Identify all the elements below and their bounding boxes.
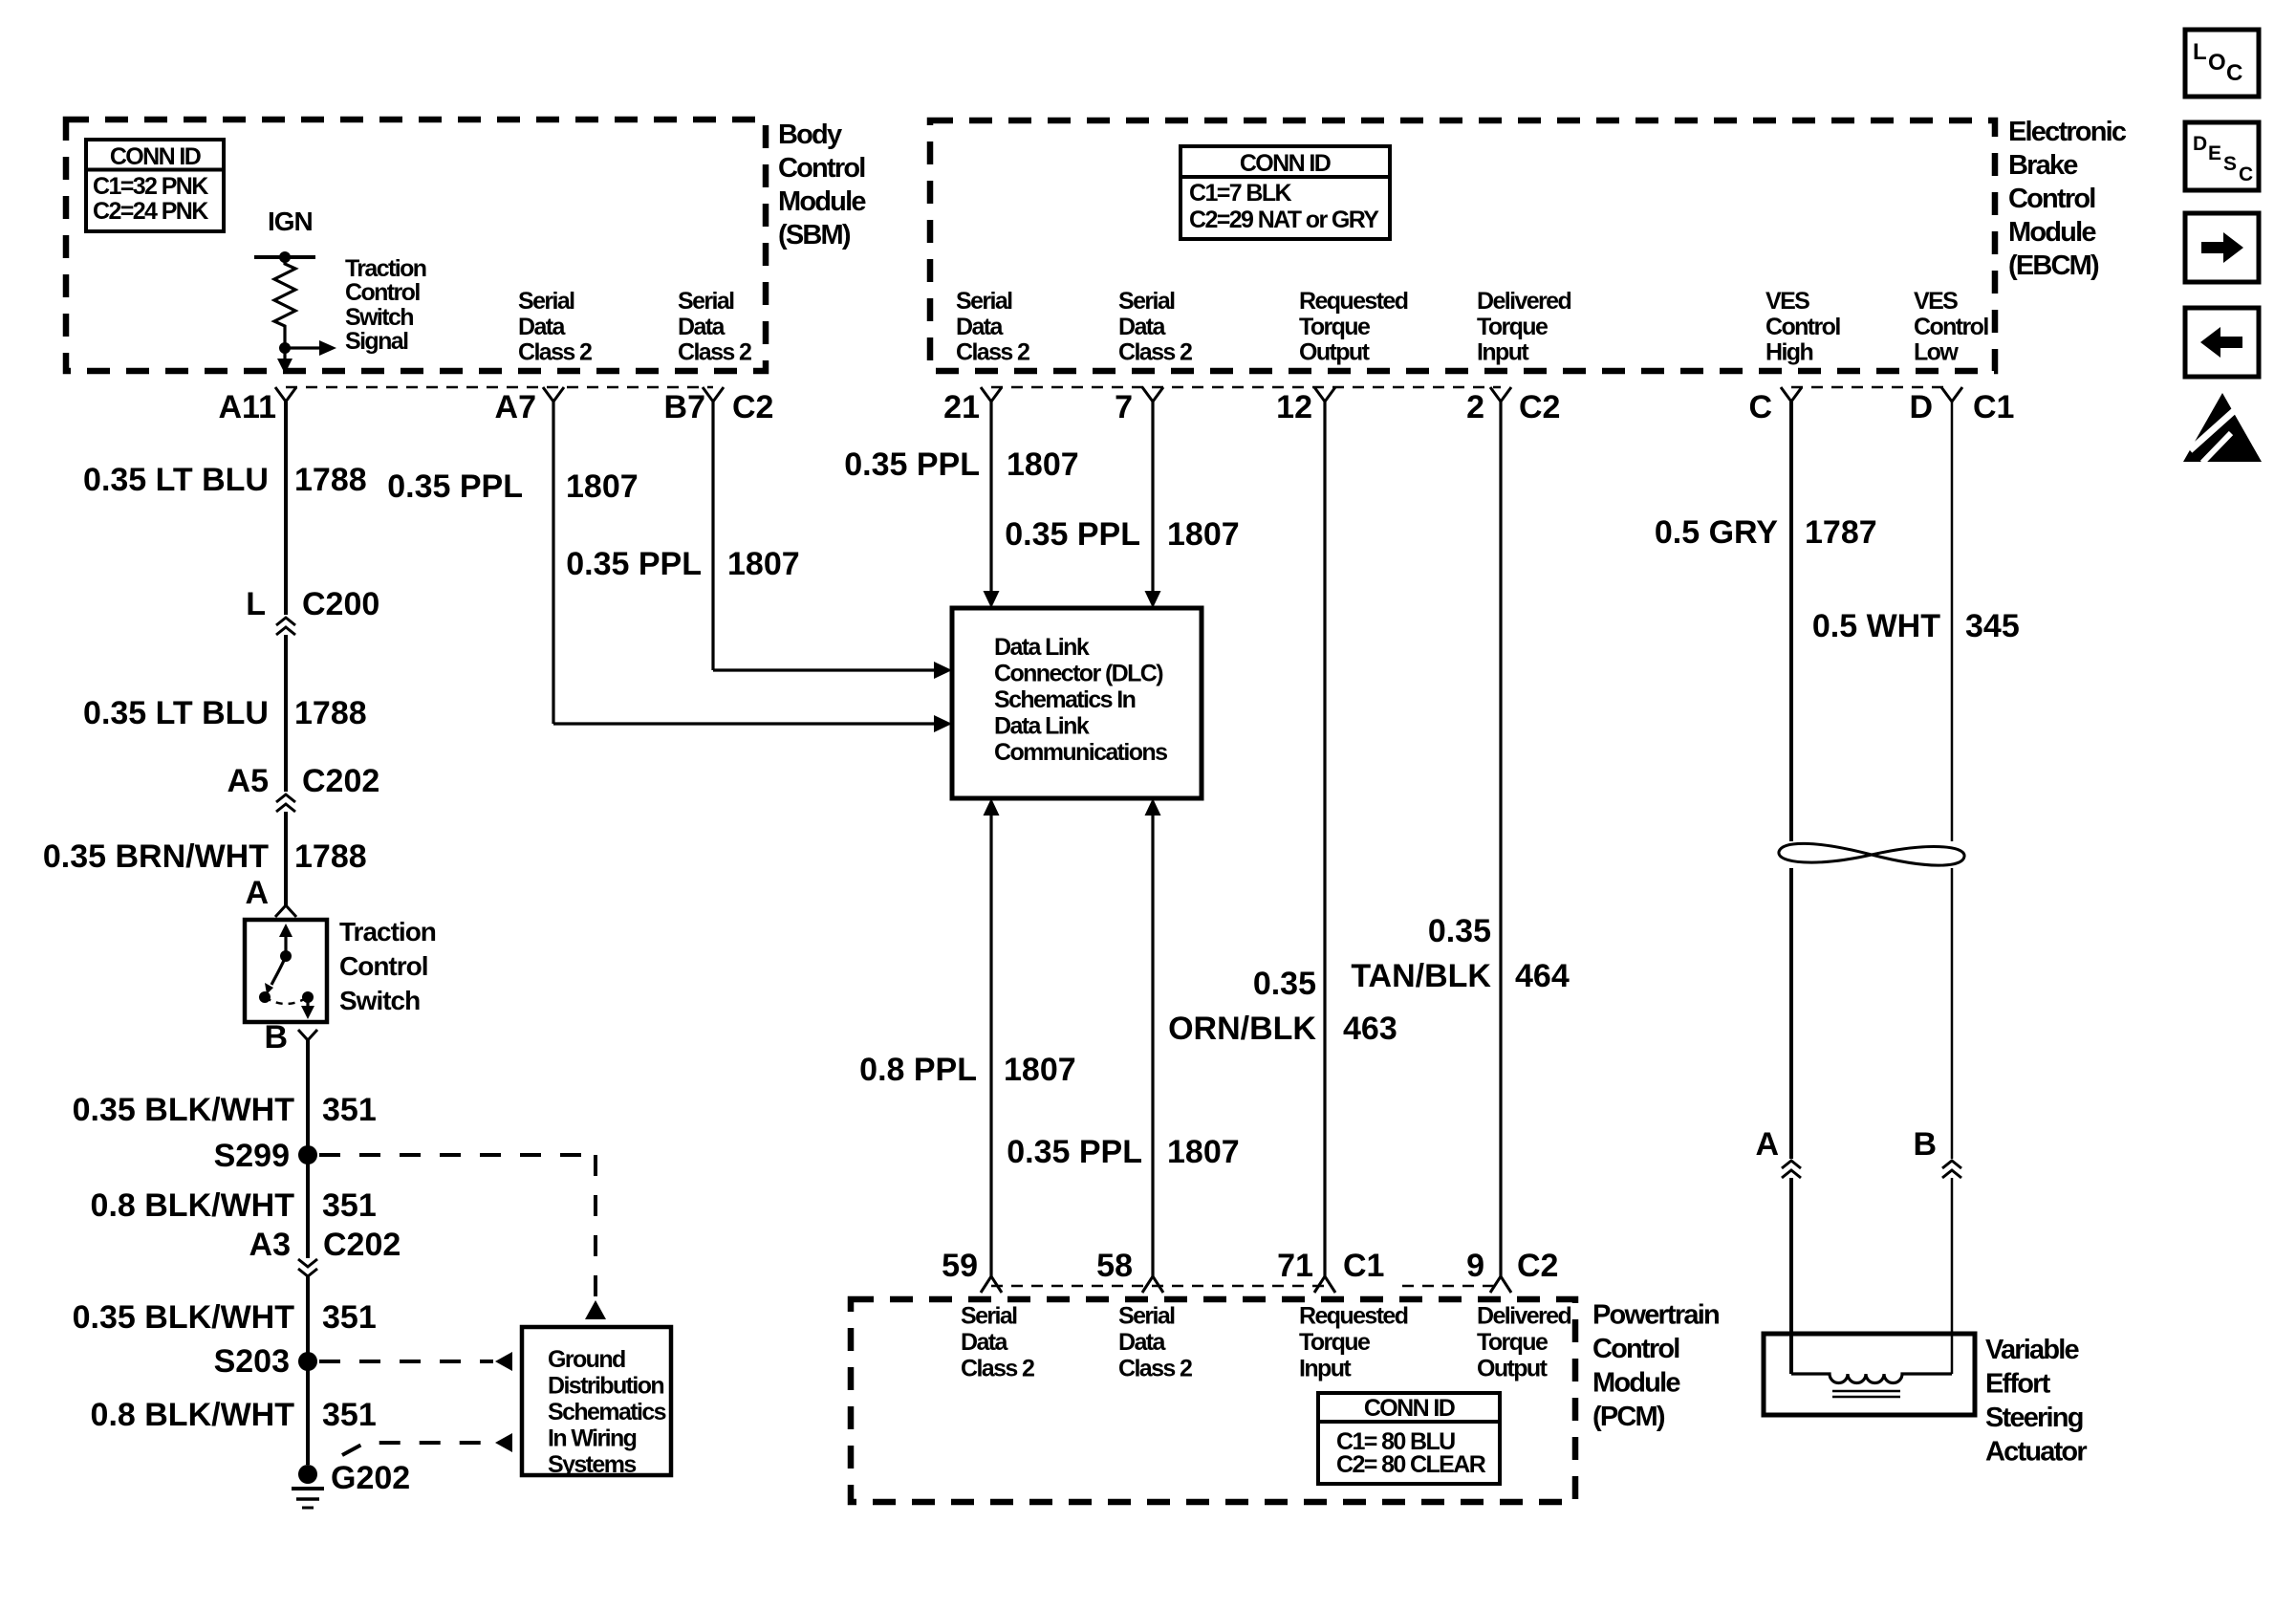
svg-text:1807: 1807 <box>1167 516 1240 553</box>
svg-text:Control: Control <box>1765 314 1840 340</box>
svg-text:0.8 BLK/WHT: 0.8 BLK/WHT <box>91 1397 295 1433</box>
svg-text:9: 9 <box>1466 1248 1484 1284</box>
svg-text:0.35 LT BLU: 0.35 LT BLU <box>83 695 269 731</box>
svg-text:C2: C2 <box>1517 1248 1558 1284</box>
svg-text:0.35 BLK/WHT: 0.35 BLK/WHT <box>73 1299 295 1336</box>
svg-text:C1=32 PNK: C1=32 PNK <box>93 173 208 200</box>
svg-text:1807: 1807 <box>1167 1134 1240 1170</box>
svg-text:Control: Control <box>778 153 865 184</box>
svg-text:21: 21 <box>943 389 980 425</box>
svg-text:Module: Module <box>778 186 866 217</box>
svg-text:Serial: Serial <box>518 288 574 315</box>
svg-text:Data Link: Data Link <box>994 713 1090 740</box>
svg-text:C1=7 BLK: C1=7 BLK <box>1189 180 1292 207</box>
svg-text:7: 7 <box>1115 389 1133 425</box>
svg-text:IGN: IGN <box>268 207 313 236</box>
svg-text:Traction: Traction <box>339 917 436 946</box>
svg-text:CONN ID: CONN ID <box>1364 1395 1455 1422</box>
svg-text:C2= 80 CLEAR: C2= 80 CLEAR <box>1336 1451 1486 1478</box>
svg-text:71: 71 <box>1277 1248 1313 1284</box>
svg-text:0.8 PPL: 0.8 PPL <box>859 1052 977 1088</box>
svg-text:VES: VES <box>1914 288 1958 315</box>
svg-text:Serial: Serial <box>956 288 1012 315</box>
svg-text:Communications: Communications <box>994 739 1167 766</box>
svg-text:Switch: Switch <box>339 986 420 1015</box>
svg-text:Switch: Switch <box>345 304 413 331</box>
svg-text:Connector (DLC): Connector (DLC) <box>994 661 1163 687</box>
svg-text:In Wiring: In Wiring <box>548 1425 637 1452</box>
svg-text:463: 463 <box>1343 1011 1397 1047</box>
svg-text:B7: B7 <box>664 389 705 425</box>
svg-text:1807: 1807 <box>1007 446 1079 483</box>
svg-text:D: D <box>2193 133 2207 155</box>
svg-text:Class 2: Class 2 <box>678 339 751 366</box>
svg-text:S203: S203 <box>214 1343 290 1380</box>
svg-text:2: 2 <box>1466 389 1484 425</box>
svg-text:Data: Data <box>678 314 726 340</box>
svg-text:0.35 PPL: 0.35 PPL <box>1007 1134 1142 1170</box>
svg-text:351: 351 <box>322 1299 377 1336</box>
svg-text:Body: Body <box>778 120 842 150</box>
svg-text:0.35 PPL: 0.35 PPL <box>387 468 523 505</box>
svg-text:Module: Module <box>2008 217 2096 248</box>
svg-text:0.35 BLK/WHT: 0.35 BLK/WHT <box>73 1092 295 1128</box>
svg-text:59: 59 <box>942 1248 978 1284</box>
svg-text:B: B <box>1913 1126 1937 1163</box>
svg-text:Output: Output <box>1477 1356 1549 1382</box>
svg-text:Torque: Torque <box>1477 1329 1549 1356</box>
svg-text:Data: Data <box>1118 1329 1166 1356</box>
svg-text:G202: G202 <box>331 1460 410 1496</box>
svg-text:Schematics: Schematics <box>548 1399 666 1425</box>
svg-text:464: 464 <box>1515 958 1570 994</box>
svg-text:1788: 1788 <box>294 462 367 498</box>
svg-text:Schematics In: Schematics In <box>994 686 1136 713</box>
svg-text:(SBM): (SBM) <box>778 220 851 250</box>
svg-text:Control: Control <box>1914 314 1988 340</box>
svg-text:Control: Control <box>339 951 428 981</box>
svg-text:Low: Low <box>1914 339 1959 366</box>
svg-text:S: S <box>2223 153 2237 175</box>
svg-text:Requested: Requested <box>1299 288 1408 315</box>
svg-text:1788: 1788 <box>294 695 367 731</box>
svg-text:Powertrain: Powertrain <box>1592 1300 1719 1331</box>
svg-text:Output: Output <box>1299 339 1371 366</box>
svg-text:Control: Control <box>1592 1334 1679 1364</box>
svg-text:C1: C1 <box>1343 1248 1384 1284</box>
svg-text:Torque: Torque <box>1299 1329 1371 1356</box>
svg-text:ORN/BLK: ORN/BLK <box>1168 1011 1316 1047</box>
svg-text:Distribution: Distribution <box>548 1373 663 1400</box>
svg-text:C: C <box>1748 389 1772 425</box>
svg-text:VES: VES <box>1765 288 1809 315</box>
svg-text:1807: 1807 <box>1004 1052 1076 1088</box>
svg-text:Signal: Signal <box>345 328 408 355</box>
svg-text:CONN ID: CONN ID <box>1240 150 1331 177</box>
svg-text:Torque: Torque <box>1477 314 1549 340</box>
svg-text:C2: C2 <box>732 389 773 425</box>
svg-text:C1: C1 <box>1973 389 2014 425</box>
svg-text:0.35 LT BLU: 0.35 LT BLU <box>83 462 269 498</box>
svg-text:1787: 1787 <box>1805 514 1877 551</box>
svg-text:Data: Data <box>518 314 566 340</box>
svg-text:Data Link: Data Link <box>994 634 1090 661</box>
svg-text:1788: 1788 <box>294 838 367 875</box>
svg-text:Class 2: Class 2 <box>961 1356 1034 1382</box>
svg-text:A7: A7 <box>495 389 536 425</box>
svg-text:Class 2: Class 2 <box>956 339 1029 366</box>
svg-text:B: B <box>264 1019 288 1055</box>
svg-text:C2=24 PNK: C2=24 PNK <box>93 198 208 225</box>
svg-text:0.35: 0.35 <box>1253 966 1316 1002</box>
svg-text:Requested: Requested <box>1299 1303 1408 1330</box>
svg-text:Systems: Systems <box>548 1451 636 1478</box>
svg-text:0.35: 0.35 <box>1428 913 1491 949</box>
svg-text:0.8 BLK/WHT: 0.8 BLK/WHT <box>91 1187 295 1224</box>
svg-text:Class 2: Class 2 <box>1118 339 1192 366</box>
svg-text:Module: Module <box>1592 1368 1680 1399</box>
svg-text:Electronic: Electronic <box>2008 117 2127 147</box>
svg-text:C: C <box>2226 60 2242 86</box>
svg-text:58: 58 <box>1096 1248 1133 1284</box>
svg-text:C202: C202 <box>302 763 379 799</box>
svg-text:1807: 1807 <box>727 546 800 582</box>
svg-text:A5: A5 <box>227 763 269 799</box>
svg-text:C: C <box>2239 163 2253 185</box>
svg-text:Data: Data <box>956 314 1004 340</box>
svg-text:Ground: Ground <box>548 1346 625 1373</box>
svg-text:0.35 PPL: 0.35 PPL <box>1005 516 1140 553</box>
svg-text:Serial: Serial <box>1118 1303 1175 1330</box>
svg-text:D: D <box>1909 389 1933 425</box>
svg-text:E: E <box>2208 142 2221 164</box>
svg-text:Data: Data <box>961 1329 1008 1356</box>
svg-text:O: O <box>2208 50 2226 76</box>
svg-text:351: 351 <box>322 1092 377 1128</box>
svg-text:0.5 GRY: 0.5 GRY <box>1655 514 1778 551</box>
svg-text:L: L <box>246 586 266 622</box>
svg-text:1807: 1807 <box>566 468 639 505</box>
svg-text:Traction: Traction <box>345 255 426 282</box>
svg-text:Delivered: Delivered <box>1477 288 1570 315</box>
svg-text:Steering: Steering <box>1985 1403 2083 1433</box>
svg-text:351: 351 <box>322 1187 377 1224</box>
svg-text:C2=29 NAT or GRY: C2=29 NAT or GRY <box>1189 207 1379 233</box>
svg-text:345: 345 <box>1965 608 2020 644</box>
svg-text:0.35 PPL: 0.35 PPL <box>566 546 702 582</box>
svg-text:C2: C2 <box>1519 389 1560 425</box>
svg-text:Variable: Variable <box>1985 1335 2080 1365</box>
svg-text:A3: A3 <box>249 1227 291 1263</box>
svg-text:Control: Control <box>345 279 420 306</box>
svg-text:Class 2: Class 2 <box>518 339 592 366</box>
svg-text:L: L <box>2193 39 2207 65</box>
svg-text:A11: A11 <box>219 389 277 425</box>
svg-text:Effort: Effort <box>1985 1369 2051 1400</box>
svg-text:C202: C202 <box>323 1227 401 1263</box>
svg-text:(EBCM): (EBCM) <box>2008 250 2099 281</box>
svg-text:Data: Data <box>1118 314 1166 340</box>
svg-text:0.5 WHT: 0.5 WHT <box>1812 608 1940 644</box>
svg-text:12: 12 <box>1276 389 1312 425</box>
svg-text:Input: Input <box>1299 1356 1352 1382</box>
svg-text:Brake: Brake <box>2008 150 2078 181</box>
svg-text:Control: Control <box>2008 184 2095 214</box>
svg-text:C200: C200 <box>302 586 379 622</box>
svg-text:A: A <box>1755 1126 1779 1163</box>
svg-text:S299: S299 <box>214 1138 290 1174</box>
svg-text:High: High <box>1765 339 1812 366</box>
svg-text:Actuator: Actuator <box>1985 1437 2087 1468</box>
svg-text:Serial: Serial <box>678 288 734 315</box>
svg-text:(PCM): (PCM) <box>1592 1402 1665 1432</box>
svg-text:Torque: Torque <box>1299 314 1371 340</box>
svg-text:0.35 PPL: 0.35 PPL <box>844 446 980 483</box>
svg-text:Serial: Serial <box>961 1303 1017 1330</box>
svg-text:Input: Input <box>1477 339 1529 366</box>
svg-text:Serial: Serial <box>1118 288 1175 315</box>
svg-text:A: A <box>245 875 269 911</box>
svg-text:TAN/BLK: TAN/BLK <box>1351 958 1491 994</box>
svg-text:0.35 BRN/WHT: 0.35 BRN/WHT <box>43 838 269 875</box>
svg-text:CONN ID: CONN ID <box>110 143 201 170</box>
svg-text:Class 2: Class 2 <box>1118 1356 1192 1382</box>
svg-text:Delivered: Delivered <box>1477 1303 1570 1330</box>
svg-text:351: 351 <box>322 1397 377 1433</box>
